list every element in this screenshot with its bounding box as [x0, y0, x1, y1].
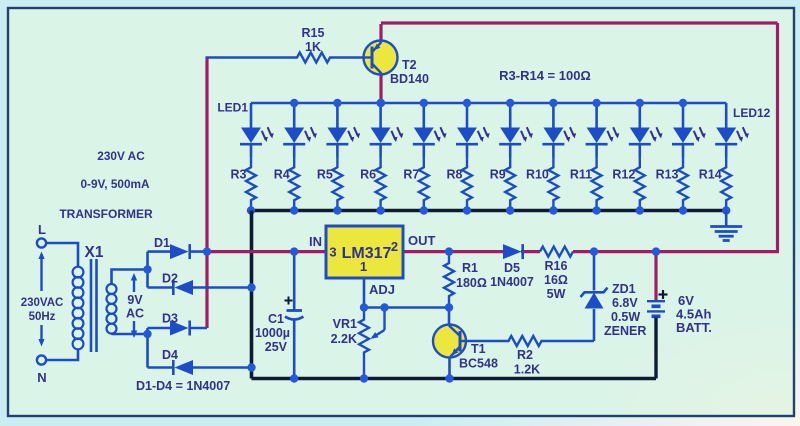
LED LED12	[725, 103, 728, 128]
svg-text:1N4007: 1N4007	[490, 275, 534, 289]
transformer X1 primary winding	[73, 267, 84, 278]
wire crimson D5 to R16	[521, 250, 540, 253]
wire T1 collector lead	[448, 308, 451, 326]
svg-text:N: N	[37, 370, 46, 385]
LED LED5	[422, 103, 425, 128]
transformer X1 core	[90, 259, 93, 352]
resistor R6	[376, 157, 386, 211]
wire T1 emitter to ground bus	[448, 357, 451, 379]
svg-text:0.5W: 0.5W	[611, 310, 640, 324]
svg-text:R2: R2	[517, 348, 533, 362]
wire crimson right side	[776, 23, 779, 252]
svg-text:5W: 5W	[547, 287, 566, 301]
wire zener cathode lead	[593, 252, 596, 291]
svg-text:R13: R13	[656, 168, 679, 182]
LED LED1	[250, 103, 253, 128]
resistor R1	[444, 252, 454, 308]
wire crimson vertical from R15 node down to D1/D3	[205, 58, 208, 329]
svg-text:BATT.: BATT.	[676, 320, 712, 335]
transistor T2 (PNP BD140)	[364, 41, 398, 75]
wire crimson OUT rail to D5	[403, 250, 503, 253]
transformer X1 secondary winding	[107, 284, 117, 294]
wire to D4	[148, 366, 174, 369]
svg-text:D1: D1	[154, 236, 170, 250]
resistor R4	[289, 157, 299, 211]
svg-text:2: 2	[391, 239, 398, 254]
resistor R7	[419, 157, 429, 211]
svg-text:R11: R11	[570, 168, 592, 182]
resistor R11	[592, 157, 602, 211]
svg-text:D5: D5	[504, 261, 520, 275]
svg-text:OUT: OUT	[408, 233, 436, 248]
svg-text:R6: R6	[360, 168, 376, 182]
svg-text:R10: R10	[526, 168, 549, 182]
svg-text:1000µ: 1000µ	[255, 326, 290, 340]
wire D3/D4 junction vertical	[146, 328, 149, 368]
resistor R15	[206, 53, 364, 63]
resistor R12	[635, 157, 645, 211]
wire black vertical (return to ground bus)	[250, 211, 254, 379]
svg-text:R3: R3	[231, 168, 247, 182]
transistor T1 (NPN BC548)	[433, 325, 466, 358]
wire to D1	[148, 250, 171, 253]
wire ADJ node horizontal	[364, 306, 449, 309]
diode D1	[170, 244, 189, 259]
terminal N	[37, 355, 46, 364]
svg-text:T2: T2	[402, 58, 417, 72]
LED LED7	[509, 103, 512, 128]
wire N to primary	[46, 349, 78, 360]
secondary voltage arrow 9V AC	[133, 276, 135, 292]
wire C1 top lead	[293, 252, 296, 310]
svg-text:IN: IN	[309, 234, 322, 249]
svg-text:ZENER: ZENER	[604, 324, 646, 338]
svg-text:C1: C1	[268, 312, 284, 326]
svg-text:230VAC: 230VAC	[21, 297, 64, 309]
svg-text:R5: R5	[317, 168, 333, 182]
wire zener anode lead	[593, 309, 596, 341]
wire D3 cathode to crimson node	[189, 327, 207, 330]
wire bottom ground bus (black)	[252, 377, 657, 381]
svg-text:R8: R8	[447, 168, 463, 182]
wire secondary bottom	[112, 333, 148, 336]
svg-text:X1: X1	[85, 244, 104, 261]
svg-text:D4: D4	[162, 348, 178, 362]
ground symbol	[725, 211, 728, 227]
resistor R9	[505, 157, 515, 211]
svg-text:230V AC: 230V AC	[97, 149, 145, 163]
junction dots on LED bus	[290, 99, 298, 107]
wire crimson IN rail	[207, 250, 326, 253]
LED LED2	[293, 103, 296, 128]
LED LED6	[466, 103, 469, 128]
svg-text:R7: R7	[403, 168, 419, 182]
svg-text:AC: AC	[126, 307, 144, 321]
wire battery positive lead	[654, 252, 657, 300]
battery plus sign	[659, 293, 668, 295]
LED LED10	[638, 103, 641, 128]
wire secondary top	[112, 270, 148, 285]
resistor R10	[548, 157, 558, 211]
resistor R5	[332, 157, 342, 211]
C1 plus sign	[285, 300, 293, 302]
svg-text:50Hz: 50Hz	[29, 311, 56, 323]
LED LED9	[595, 103, 598, 128]
svg-text:ZD1: ZD1	[612, 282, 636, 296]
LED LED4	[379, 103, 382, 128]
resistor R2	[466, 336, 594, 346]
wire D4 anode to black vertical	[192, 366, 252, 369]
svg-text:R12: R12	[612, 168, 635, 182]
svg-text:R15: R15	[302, 26, 325, 40]
wire to D2	[148, 286, 174, 289]
battery BATT 6V	[647, 300, 665, 302]
resistor R8	[462, 157, 472, 211]
svg-text:16Ω: 16Ω	[544, 273, 568, 287]
svg-text:9V: 9V	[127, 293, 143, 307]
svg-text:1: 1	[360, 259, 367, 274]
svg-text:D2: D2	[162, 272, 178, 286]
svg-text:D1-D4 = 1N4007: D1-D4 = 1N4007	[136, 379, 230, 393]
diode D2	[175, 280, 194, 295]
svg-text:25V: 25V	[265, 340, 288, 354]
wire D2 anode to black vertical	[192, 286, 252, 289]
capacitor C1	[287, 309, 303, 312]
wire crimson top rail	[381, 21, 778, 24]
wire LED anode bus	[251, 102, 726, 105]
zener diode ZD1	[585, 293, 604, 309]
LED LED3	[336, 103, 339, 128]
svg-text:VR1: VR1	[333, 317, 357, 331]
wire LED cathode return bus (black)	[251, 209, 726, 213]
svg-text:TRANSFORMER: TRANSFORMER	[59, 207, 153, 221]
svg-text:R1: R1	[462, 261, 478, 275]
regulator U1 LM317	[326, 226, 403, 278]
svg-text:T1: T1	[471, 342, 486, 356]
svg-text:L: L	[38, 222, 46, 237]
wire T2 emitter to top rail	[379, 24, 382, 41]
diode D5	[503, 244, 522, 259]
junction dots	[377, 99, 385, 107]
diode D4	[175, 360, 194, 375]
wire to D3	[148, 327, 171, 330]
wire D1 cathode to node	[189, 250, 207, 253]
svg-text:1.2K: 1.2K	[514, 363, 540, 377]
wire D1/D2 junction vertical	[146, 252, 149, 288]
junction dots on return bus	[247, 206, 255, 214]
svg-text:BD140: BD140	[390, 72, 429, 86]
svg-text:R4: R4	[274, 168, 290, 182]
svg-text:3: 3	[329, 245, 336, 260]
svg-text:R3-R14 = 100Ω: R3-R14 = 100Ω	[499, 68, 591, 83]
resistor R3	[246, 157, 256, 211]
LED LED11	[682, 103, 685, 128]
mains voltage arrow	[40, 254, 42, 291]
resistor R13	[678, 157, 688, 211]
svg-text:R9: R9	[490, 168, 506, 182]
svg-text:R16: R16	[545, 259, 568, 273]
resistor R14	[721, 157, 731, 211]
wire L to primary	[46, 243, 78, 267]
svg-text:1K: 1K	[305, 40, 321, 54]
resistor R16	[540, 247, 573, 257]
VR1 wiper arrow	[383, 308, 385, 331]
svg-text:2.2K: 2.2K	[331, 332, 357, 346]
svg-text:6.8V: 6.8V	[612, 296, 638, 310]
wire T2 collector to LED bus	[379, 74, 382, 103]
wire battery negative lead	[654, 318, 657, 379]
LED LED8	[552, 103, 555, 128]
svg-text:LED1: LED1	[217, 101, 248, 115]
terminal L	[37, 238, 46, 247]
svg-text:ADJ: ADJ	[369, 282, 395, 297]
wire ADJ lead	[363, 278, 366, 308]
svg-text:LED12: LED12	[733, 106, 771, 120]
svg-text:0-9V, 500mA: 0-9V, 500mA	[80, 177, 150, 191]
diode D3	[170, 321, 189, 336]
svg-text:R14: R14	[699, 168, 722, 182]
svg-text:BC548: BC548	[459, 357, 498, 371]
potentiometer VR1	[359, 308, 369, 379]
svg-text:D3: D3	[162, 312, 178, 326]
svg-text:180Ω: 180Ω	[456, 276, 487, 290]
wire crimson R16 to right side	[573, 250, 779, 253]
